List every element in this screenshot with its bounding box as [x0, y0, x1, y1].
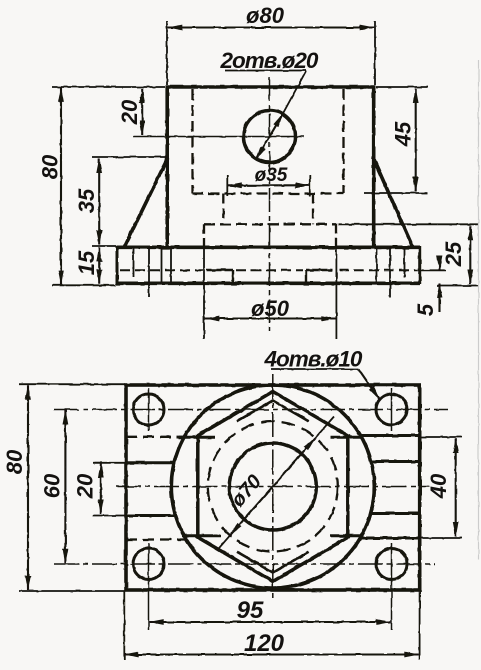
svg-text:95: 95	[237, 597, 264, 624]
dashed circle	[208, 422, 338, 552]
svg-text:2отв.ø20: 2отв.ø20	[220, 48, 319, 73]
svg-text:25: 25	[441, 241, 466, 267]
svg-text:45: 45	[391, 121, 416, 147]
ø50 ext lines	[203, 247, 205, 339]
plate rect	[126, 385, 420, 590]
5 top ext	[420, 269, 446, 271]
scan edge artifact	[478, 60, 480, 560]
slot lines left dashed	[126, 436, 187, 438]
base step right	[306, 269, 333, 271]
block right edge	[372, 87, 376, 247]
svg-text:5: 5	[413, 303, 438, 316]
svg-text:15: 15	[74, 250, 99, 275]
45 bottom ext	[364, 192, 428, 194]
corner hole BL	[133, 549, 164, 580]
right rib slant	[373, 158, 412, 247]
hex chamfer second V top	[237, 401, 309, 422]
base slot verticals left	[133, 247, 135, 277]
view vertical centerline	[272, 374, 274, 600]
svg-text:ø80: ø80	[246, 3, 285, 28]
base right edge	[418, 246, 421, 285]
corner hole TL	[133, 394, 164, 425]
ø35 dim	[227, 184, 309, 186]
dim 120	[124, 653, 419, 655]
corner hole TR	[376, 394, 407, 425]
80 bottom ext	[52, 284, 116, 286]
plate rect ext for 120	[123, 591, 125, 660]
svg-text:80: 80	[2, 449, 27, 474]
35 top ext	[92, 156, 167, 158]
ø50 boss hidden top	[204, 223, 336, 225]
hexagon	[196, 392, 350, 437]
dim 20 front	[141, 89, 143, 136]
base top	[117, 246, 421, 250]
corner hole BR	[376, 549, 407, 580]
hidden cavity dashed	[191, 89, 193, 194]
dim 95	[149, 621, 391, 623]
view horizontal centerline	[116, 486, 430, 488]
block top ext right (45 dim)	[376, 86, 428, 88]
bore circle	[229, 443, 316, 530]
big circle ø80 boss	[171, 385, 374, 588]
ø70 diameter line	[218, 535, 231, 550]
25 top ext	[338, 223, 478, 225]
base bottom	[117, 281, 421, 285]
svg-text:20: 20	[73, 473, 98, 499]
block left edge	[165, 87, 169, 247]
dim 40	[455, 439, 457, 537]
block top ext left (80 dim)	[52, 86, 165, 88]
ø50 dim line	[205, 317, 336, 319]
base left edge	[116, 246, 119, 285]
ext lines ø80	[166, 21, 168, 85]
svg-text:40: 40	[426, 473, 451, 499]
hex chamfer second V bottom	[237, 552, 309, 573]
slot lines left solid	[126, 461, 174, 464]
base hidden mid dashed	[120, 269, 203, 271]
40 dim ext	[420, 436, 462, 438]
25 bottom ext	[437, 285, 478, 287]
label 2отв.ø20 underline	[225, 70, 306, 72]
label 4отв.ø10 underline + leader	[271, 368, 359, 370]
svg-text:ø35: ø35	[255, 165, 288, 186]
base step left	[207, 269, 234, 271]
svg-text:60: 60	[39, 473, 64, 498]
svg-text:4отв.ø10: 4отв.ø10	[264, 347, 363, 372]
slot lines right solid	[359, 434, 420, 437]
hole horizontal centerline + 20-dim ext	[133, 136, 304, 138]
block top	[166, 85, 376, 89]
dim 80 front	[60, 87, 62, 284]
dim 15	[98, 247, 100, 283]
dim 45	[415, 89, 417, 192]
view vertical centerline	[269, 77, 271, 331]
plate rect ext for 80	[19, 383, 125, 385]
svg-text:20: 20	[117, 99, 142, 125]
svg-text:120: 120	[244, 630, 285, 657]
hex corner notches	[179, 436, 215, 439]
dim 5	[438, 256, 440, 271]
dim 20 top view	[100, 463, 102, 514]
dim 80 top view	[27, 385, 29, 590]
svg-text:ø50: ø50	[251, 296, 290, 321]
base slot verticals right	[376, 247, 378, 285]
hole row centerlines	[54, 409, 448, 411]
dim line ø80 top	[168, 26, 374, 28]
dim 60	[64, 410, 66, 563]
ø35 bore hidden	[222, 194, 224, 225]
dim 35	[98, 159, 100, 245]
svg-text:35: 35	[74, 188, 99, 213]
leader / ø20 diameter line	[283, 71, 306, 113]
hole circle ø20	[244, 111, 296, 163]
35/15 mid ext	[92, 245, 116, 247]
svg-text:80: 80	[38, 154, 63, 179]
dim 25	[469, 226, 471, 284]
left rib slant	[125, 158, 168, 247]
